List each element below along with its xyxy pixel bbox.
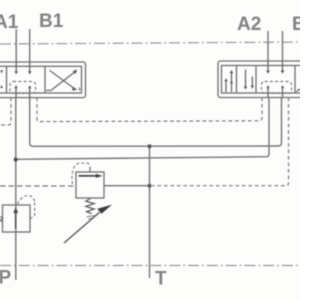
svg-text:A2: A2 bbox=[237, 14, 261, 35]
svg-text:B1: B1 bbox=[39, 11, 64, 32]
svg-text:T: T bbox=[155, 269, 167, 290]
svg-text:P: P bbox=[0, 268, 12, 289]
svg-text:B2: B2 bbox=[292, 14, 300, 35]
